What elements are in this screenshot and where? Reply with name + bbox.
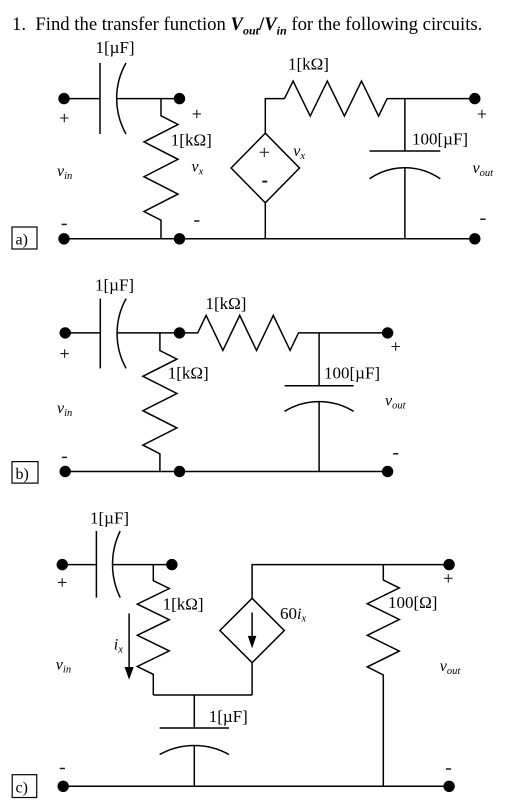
svg-text:60ix: 60ix [280, 604, 306, 625]
svg-text:1[µF]: 1[µF] [209, 707, 248, 726]
node: circuit b v_in- terminal [59, 466, 70, 477]
svg-text:1[µF]: 1[µF] [96, 38, 135, 57]
svg-text:vout: vout [473, 160, 495, 179]
svg-text:vout: vout [440, 658, 462, 677]
wire: circuit b, left lead from v_in+ to capacitor [65, 332, 100, 334]
node: circuit c v_in+ terminal [57, 559, 68, 570]
capacitor C 1uF (circuit a, series input) [100, 63, 126, 134]
node: circuit b v_in+ terminal [59, 327, 70, 338]
label v_x beside resistor (circuit a) [192, 159, 204, 178]
label v_in (circuit b) [57, 400, 72, 419]
wire: circuit a, capacitor to top node [117, 98, 180, 100]
svg-text:1[kΩ]: 1[kΩ] [163, 595, 204, 614]
value label 100uF (circuit a) [412, 130, 468, 149]
resistor 1kohm vertical (circuit a) [144, 99, 178, 239]
polarity minus v_out (circuit b) [393, 453, 398, 455]
svg-text:100[Ω]: 100[Ω] [388, 593, 437, 612]
value label 100ohm (circuit c) [388, 593, 437, 612]
node: circuit a v_in+ terminal [58, 93, 69, 104]
capacitor 100uF (circuit a, output) [370, 99, 441, 239]
node: circuit b v_out+ terminal [382, 327, 393, 338]
label v_out (circuit a) [473, 160, 495, 179]
resistor 1kohm horizontal (circuit b) [180, 315, 388, 350]
value label 1kohm vertical (circuit a) [171, 131, 212, 150]
wire: circuit b, bottom rail [65, 471, 387, 473]
capacitor 100uF (circuit b, output) [285, 333, 354, 472]
value label 1kohm horizontal (circuit b) [206, 294, 247, 313]
node: circuit a bottom middle [174, 233, 185, 244]
polarity minus resistor v_x (circuit a) [194, 220, 199, 222]
title: problem statement [12, 14, 482, 39]
polarity minus v_in (circuit c) [60, 768, 65, 770]
value label 1uF top (circuit c) [90, 509, 129, 528]
capacitor C 1uF (circuit b, series input) [100, 299, 126, 369]
svg-text:1[µF]: 1[µF] [95, 276, 134, 295]
capacitor C 1uF (circuit c, series input) [96, 531, 120, 598]
node: circuit b bottom middle [174, 466, 185, 477]
label v_out (circuit b) [385, 393, 407, 412]
dependent current source 60ix diamond (circuit c) [220, 598, 284, 662]
polarity minus inside diamond (circuit a) [262, 181, 267, 183]
svg-text:1[kΩ]: 1[kΩ] [168, 364, 209, 383]
resistor 100ohm vertical (circuit c) [367, 565, 399, 787]
node: circuit b top middle [174, 327, 185, 338]
part label box a) [12, 227, 37, 249]
value label 1uF (circuit a) [96, 38, 135, 57]
svg-text:1[kΩ]: 1[kΩ] [206, 294, 247, 313]
value label 1uF bottom (circuit c) [209, 707, 248, 726]
part label box c) [12, 775, 37, 798]
node: circuit a v_out- terminal [469, 233, 480, 244]
wire: circuit a, bottom rail [64, 238, 475, 240]
polarity plus v_in (circuit b) [60, 349, 68, 357]
wire: circuit c, bottom rail [63, 785, 449, 787]
part label box b) [12, 462, 38, 484]
polarity minus v_out (circuit c) [446, 768, 451, 770]
svg-text:a): a) [16, 232, 28, 249]
node: circuit c top middle [166, 559, 177, 570]
value label 100uF (circuit b) [324, 364, 380, 383]
polarity minus v_out (circuit a) [480, 218, 485, 220]
arrow: current ix beside 1kohm (circuit c) [126, 613, 133, 677]
node: circuit b v_out- terminal [382, 466, 393, 477]
polarity plus v_out (circuit c) [444, 574, 452, 582]
resistor 1kohm vertical (circuit c) [137, 565, 169, 695]
wire: circuit a, left lead from v_in+ to capacitor [64, 98, 100, 100]
capacitor 1uF (circuit c, bottom) [160, 695, 229, 786]
wire: circuit a, diamond top riser [265, 99, 284, 134]
label v_in (circuit c) [56, 657, 71, 676]
value label 1uF (circuit b) [95, 276, 134, 295]
resistor 1kohm horizontal (circuit a) [285, 81, 475, 116]
svg-text:ix: ix [114, 637, 123, 656]
value label 1kohm horizontal (circuit a) [288, 55, 329, 74]
polarity plus inside diamond (circuit a) [260, 148, 269, 157]
arrow: inside dependent current source diamond (circuit c) [249, 613, 255, 647]
polarity plus v_out (circuit a) [478, 110, 486, 118]
label v_in (circuit a) [57, 163, 72, 182]
wire: circuit c, diamond top riser and top rail to v_out+ [252, 565, 449, 599]
value label 1kohm vertical (circuit b) [168, 364, 209, 383]
wire: circuit b, capacitor to top node [117, 332, 179, 334]
label ix beside arrow (circuit c) [114, 637, 123, 656]
polarity plus v_out (circuit b) [392, 342, 400, 350]
node: circuit a v_in- terminal [58, 233, 69, 244]
resistor 1kohm vertical (circuit b) [143, 333, 177, 472]
label v_out (circuit c) [440, 658, 462, 677]
wire: circuit a, diamond bottom to ground rail [264, 203, 266, 239]
svg-text:vin: vin [57, 400, 72, 419]
polarity plus resistor v_x (circuit a) [193, 110, 201, 118]
svg-text:1[kΩ]: 1[kΩ] [171, 131, 212, 150]
node: circuit c v_out+ terminal [443, 559, 454, 570]
svg-text:b): b) [16, 466, 29, 483]
value label 1kohm (circuit c) [163, 595, 204, 614]
node: circuit c v_in- terminal [58, 781, 69, 792]
label gain 60ix (circuit c) [280, 604, 306, 625]
node: circuit a top middle [174, 93, 185, 104]
wire: circuit c, diamond bottom lead [251, 663, 253, 695]
polarity minus v_in (circuit b) [62, 456, 67, 458]
wire: circuit c, left lead from v_in+ to capacitor [62, 564, 96, 566]
node: circuit c v_out- terminal [443, 781, 454, 792]
dependent voltage source v_x diamond (circuit a) [231, 133, 299, 203]
wire: circuit c, capacitor to top node [113, 564, 172, 566]
svg-text:vin: vin [56, 657, 71, 676]
polarity plus v_in (circuit c) [58, 578, 66, 586]
label v_x beside diamond (circuit a) [293, 143, 305, 162]
wire: circuit c, bottom segment resistor to diamond [153, 694, 252, 696]
svg-text:100[µF]: 100[µF] [324, 364, 380, 383]
svg-text:1[µF]: 1[µF] [90, 509, 129, 528]
svg-text:vout: vout [385, 393, 407, 412]
node: circuit a v_out+ terminal [469, 93, 480, 104]
svg-text:1[kΩ]: 1[kΩ] [288, 55, 329, 74]
svg-text:100[µF]: 100[µF] [412, 130, 468, 149]
polarity minus v_in (circuit a) [62, 223, 67, 225]
polarity plus v_in (circuit a) [60, 114, 68, 122]
svg-text:vx: vx [293, 143, 305, 162]
svg-text:vx: vx [192, 159, 204, 178]
svg-text:vin: vin [57, 163, 72, 182]
svg-text:c): c) [16, 780, 28, 797]
